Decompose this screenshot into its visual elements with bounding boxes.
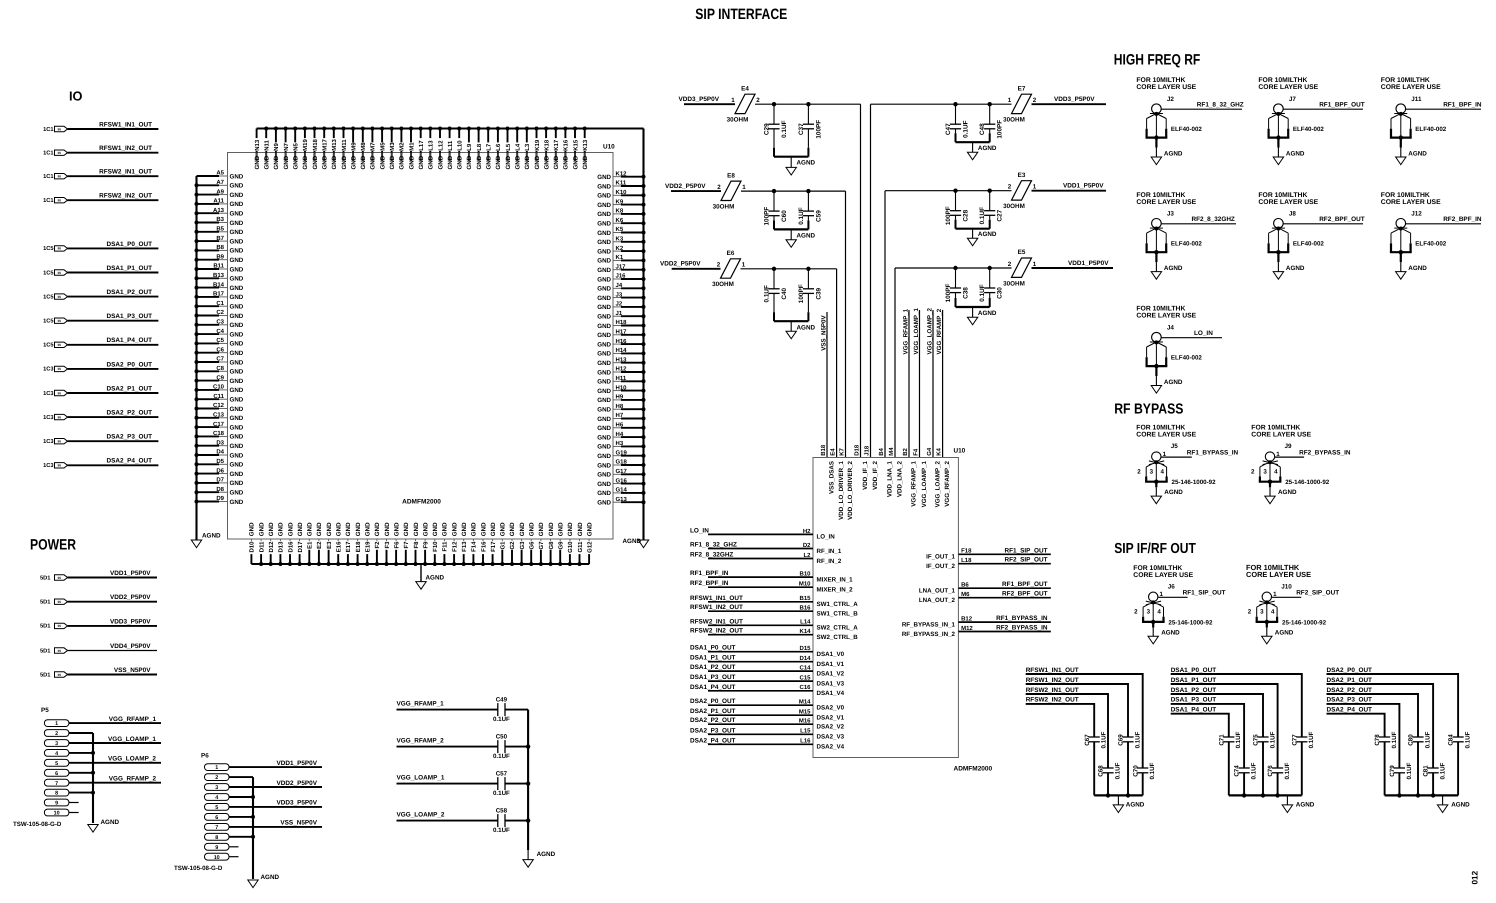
- U10 pin D7 (GND): [197, 482, 220, 484]
- svg-text:6: 6: [215, 815, 218, 821]
- U10 pin M10 (MIXER_IN_2) / wire RF2_BPF_IN: [708, 586, 813, 588]
- svg-text:H14: H14: [616, 347, 628, 354]
- svg-text:SW1_CTRL_B: SW1_CTRL_B: [817, 611, 859, 618]
- svg-text:C15: C15: [799, 675, 811, 682]
- svg-text:F9: F9: [422, 541, 429, 549]
- svg-text:U10: U10: [954, 448, 966, 455]
- svg-text:3: 3: [1150, 468, 1154, 475]
- U10 pin B5 (GND): [197, 231, 220, 233]
- svg-text:GND: GND: [597, 276, 611, 283]
- svg-text:GND: GND: [442, 522, 449, 536]
- svg-text:SIP INTERFACE: SIP INTERFACE: [695, 6, 787, 23]
- U10 pin L17 (GND): [420, 129, 422, 162]
- wire bottom GND bus: [251, 563, 589, 565]
- svg-text:GND: GND: [597, 472, 611, 479]
- svg-text:AGND: AGND: [1164, 150, 1183, 157]
- svg-text:GND: GND: [548, 522, 555, 536]
- svg-text:GND: GND: [326, 522, 333, 536]
- svg-text:F13: F13: [461, 541, 468, 552]
- svg-text:0.1UF: 0.1UF: [1465, 731, 1472, 748]
- svg-text:C17: C17: [213, 421, 225, 428]
- U10 pin L2 (RF_IN_2) / wire RF2_8_32GHZ: [708, 558, 813, 560]
- svg-text:U10: U10: [603, 144, 615, 151]
- svg-text:L2: L2: [803, 552, 811, 559]
- svg-text:30OHM: 30OHM: [727, 117, 749, 124]
- svg-text:L16: L16: [800, 738, 811, 745]
- svg-text:J7: J7: [1289, 96, 1297, 103]
- svg-text:GND: GND: [422, 522, 429, 536]
- U10 pin H8 (GND): [613, 408, 621, 410]
- svg-text:GND: GND: [471, 522, 478, 536]
- svg-text:C81: C81: [1423, 765, 1430, 777]
- svg-text:C80: C80: [1408, 734, 1415, 746]
- U10 pin G8 (GND): [550, 539, 552, 547]
- svg-text:GND: GND: [437, 155, 444, 169]
- svg-text:ELF40-002: ELF40-002: [1171, 241, 1203, 248]
- svg-text:30OHM: 30OHM: [1003, 203, 1025, 210]
- svg-text:30OHM: 30OHM: [1003, 117, 1025, 124]
- svg-text:K13: K13: [582, 139, 589, 151]
- U10 pin N11 (GND): [265, 129, 267, 162]
- svg-text:D17: D17: [297, 541, 304, 553]
- ground AGND (E4 caps): [786, 167, 796, 175]
- U10 pin D5 (GND): [197, 463, 220, 465]
- svg-text:GND: GND: [283, 155, 290, 169]
- svg-text:J1: J1: [616, 310, 623, 317]
- svg-text:F17: F17: [490, 541, 497, 552]
- svg-text:RF_BYPASS_IN_1: RF_BYPASS_IN_1: [902, 621, 956, 628]
- svg-text:GND: GND: [230, 257, 244, 264]
- svg-text:2: 2: [1251, 468, 1255, 475]
- svg-text:D13: D13: [278, 541, 285, 553]
- svg-text:AGND: AGND: [1408, 265, 1427, 272]
- U10 pin B12 (RF_BYPASS_IN_1) / wire RF1_BYPASS_IN: [958, 621, 1050, 623]
- svg-text:4: 4: [1274, 468, 1278, 475]
- svg-text:K12: K12: [616, 170, 628, 177]
- U10 pin H14 (GND): [613, 352, 621, 354]
- U10 pin F7 (GND): [405, 539, 407, 547]
- ground AGND (J8): [1277, 252, 1279, 262]
- U10 pin J2 (GND): [613, 306, 621, 308]
- wire RF2_BYPASS_IN (J9): [1275, 456, 1304, 458]
- svg-text:AGND: AGND: [1164, 489, 1183, 496]
- svg-text:RFSW1_IN1_OUT: RFSW1_IN1_OUT: [1026, 667, 1079, 674]
- svg-text:GND: GND: [597, 434, 611, 441]
- svg-text:VGG_LOAMP_1: VGG_LOAMP_1: [921, 460, 928, 507]
- svg-text:DSA1_P2_OUT: DSA1_P2_OUT: [1171, 687, 1217, 694]
- wire RF1_BPF_OUT (J7): [1283, 108, 1363, 110]
- svg-text:GND: GND: [597, 462, 611, 469]
- svg-text:GND: GND: [597, 388, 611, 395]
- svg-text:GND: GND: [230, 369, 244, 376]
- wire DSA2_P3_OUT (decoupling): [1327, 704, 1400, 737]
- svg-text:GND: GND: [230, 350, 244, 357]
- svg-text:GND: GND: [230, 424, 244, 431]
- svg-text:GND: GND: [597, 416, 611, 423]
- capacitor C39 100PF: [807, 269, 809, 289]
- svg-text:GND: GND: [597, 407, 611, 414]
- svg-text:DSA2_P4_OUT: DSA2_P4_OUT: [690, 737, 736, 744]
- ground AGND (J7): [1277, 138, 1279, 148]
- svg-text:GND: GND: [543, 155, 550, 169]
- svg-text:B9: B9: [216, 253, 224, 260]
- svg-text:K11: K11: [616, 180, 627, 187]
- svg-text:GND: GND: [230, 471, 244, 478]
- svg-text:SW1_CTRL_A: SW1_CTRL_A: [817, 601, 859, 608]
- U10 pin G9 (GND): [559, 539, 561, 547]
- svg-text:L11: L11: [447, 140, 454, 151]
- svg-text:4: 4: [1157, 609, 1161, 616]
- wire E6 cap ground bus: [774, 320, 808, 322]
- svg-text:GND: GND: [597, 258, 611, 265]
- svg-text:K19: K19: [534, 139, 541, 151]
- svg-text:ADMFM2000: ADMFM2000: [402, 499, 441, 506]
- svg-text:1C5: 1C5: [43, 270, 53, 276]
- svg-text:DSA2_P0_OUT: DSA2_P0_OUT: [690, 698, 736, 705]
- svg-text:C49: C49: [496, 696, 508, 703]
- U10 pin J3 (GND): [613, 297, 621, 299]
- svg-text:K18: K18: [543, 139, 550, 151]
- svg-text:GND: GND: [345, 522, 352, 536]
- svg-text:4: 4: [55, 751, 58, 757]
- svg-text:GND: GND: [597, 397, 611, 404]
- svg-text:GND: GND: [350, 155, 357, 169]
- svg-text:AGND: AGND: [978, 231, 997, 238]
- svg-text:1: 1: [742, 262, 746, 269]
- svg-text:G18: G18: [616, 459, 628, 466]
- svg-text:MIXER_IN_2: MIXER_IN_2: [817, 587, 854, 594]
- U10 pin C10 (GND): [197, 389, 220, 391]
- svg-text:25-146-1000-92: 25-146-1000-92: [1168, 619, 1213, 626]
- U10 pin M11 (GND): [343, 129, 345, 162]
- svg-text:CORE LAYER USE: CORE LAYER USE: [1136, 313, 1196, 320]
- svg-text:E6: E6: [727, 250, 735, 257]
- svg-text:RF2_8_32GHZ: RF2_8_32GHZ: [690, 552, 733, 559]
- svg-text:G4: G4: [926, 447, 933, 456]
- svg-text:1: 1: [1033, 261, 1037, 268]
- wire DSA1_P3_OUT (decoupling): [1171, 704, 1244, 737]
- svg-text:GND: GND: [519, 522, 526, 536]
- svg-text:VDD1_P5P0V: VDD1_P5P0V: [1063, 183, 1104, 190]
- svg-text:DSA2_P2_OUT: DSA2_P2_OUT: [690, 717, 736, 724]
- svg-text:ADMFM2000: ADMFM2000: [954, 766, 993, 773]
- U10 pin K11 (GND): [613, 185, 621, 187]
- svg-text:C10: C10: [213, 384, 225, 391]
- ground AGND (J3): [1155, 252, 1157, 262]
- svg-text:ELF40-002: ELF40-002: [1293, 126, 1325, 133]
- svg-text:RFSW2_IN2_OUT: RFSW2_IN2_OUT: [99, 193, 152, 200]
- U10 pin G13 (GND): [613, 501, 621, 503]
- U10 pin G1 (GND): [501, 539, 503, 547]
- svg-text:GND: GND: [230, 359, 244, 366]
- svg-text:C37: C37: [798, 123, 805, 135]
- svg-text:GND: GND: [230, 322, 244, 329]
- U10 pin B17 (GND): [197, 296, 220, 298]
- U10 pin F17 (GND): [492, 539, 494, 547]
- svg-text:0.1UF: 0.1UF: [963, 120, 970, 137]
- U10 pin D11 (GND): [260, 539, 262, 547]
- svg-text:DSA2_P0_OUT: DSA2_P0_OUT: [107, 361, 153, 368]
- ground AGND (decoupling bank): [1117, 795, 1119, 805]
- svg-text:GND: GND: [432, 522, 439, 536]
- U10 pin K10 (GND): [613, 194, 621, 196]
- svg-text:3: 3: [1263, 468, 1267, 475]
- svg-text:P5: P5: [41, 707, 49, 714]
- svg-text:25-146-1000-92: 25-146-1000-92: [1282, 619, 1327, 626]
- svg-text:1C3: 1C3: [43, 367, 53, 373]
- svg-text:ELF40-002: ELF40-002: [1293, 241, 1325, 248]
- svg-text:C29: C29: [763, 123, 770, 135]
- svg-text:CORE LAYER USE: CORE LAYER USE: [1136, 199, 1196, 206]
- svg-text:VDD_LO_DRIVER_2: VDD_LO_DRIVER_2: [847, 460, 854, 519]
- svg-text:RFSW1_IN1_OUT: RFSW1_IN1_OUT: [99, 121, 152, 128]
- svg-text:GND: GND: [597, 286, 611, 293]
- U10 pin N5 (GND): [294, 129, 296, 162]
- svg-text:VDD_LNA_2: VDD_LNA_2: [896, 460, 903, 497]
- svg-text:GND: GND: [316, 522, 323, 536]
- svg-text:M18: M18: [312, 138, 319, 150]
- svg-text:RF1_8_32_GHZ: RF1_8_32_GHZ: [690, 542, 737, 549]
- svg-text:GND: GND: [495, 155, 502, 169]
- svg-text:M3: M3: [389, 142, 396, 151]
- U10 pin A5 (GND): [197, 175, 220, 177]
- U10 pin H16 (GND): [613, 343, 621, 345]
- wire VDD2_P5P0V input: [672, 268, 721, 270]
- capacitor C49 0.1UF: [497, 703, 499, 716]
- svg-text:GND: GND: [597, 360, 611, 367]
- svg-text:100PF: 100PF: [815, 120, 822, 139]
- U10 pin C5 (GND): [197, 342, 220, 344]
- U10 pin F6 (GND): [395, 539, 397, 547]
- svg-text:FOR 10MILTHK: FOR 10MILTHK: [1133, 565, 1182, 572]
- svg-text:0.1UF: 0.1UF: [1424, 731, 1431, 748]
- svg-text:C9: C9: [216, 374, 224, 381]
- svg-text:GND: GND: [597, 425, 611, 432]
- ferrite bead E8 30OHM: [721, 181, 741, 200]
- svg-text:C12: C12: [213, 402, 225, 409]
- svg-text:VGG_LOAMP_1: VGG_LOAMP_1: [913, 308, 920, 355]
- svg-text:2: 2: [1137, 468, 1141, 475]
- svg-text:B10: B10: [799, 571, 811, 578]
- wire DSA1_P3_OUT: [68, 320, 159, 322]
- svg-text:0.1UF: 0.1UF: [1149, 762, 1156, 779]
- svg-text:GND: GND: [230, 462, 244, 469]
- wire RF1_SIP_OUT (J6): [1158, 596, 1188, 598]
- U10 pin M5 (GND): [381, 129, 383, 162]
- svg-text:L15: L15: [800, 728, 811, 735]
- svg-text:E7: E7: [1018, 85, 1026, 92]
- U10 pin K1 (GND): [613, 259, 621, 261]
- U10 pin H3 (GND): [613, 445, 621, 447]
- wire C57 to ground bus: [505, 783, 528, 785]
- wire VGG_LOAMP_1 vertical (to U10 pin F4): [919, 310, 921, 458]
- svg-text:VDD3_P5P0V: VDD3_P5P0V: [277, 800, 318, 807]
- svg-text:GND: GND: [230, 341, 244, 348]
- svg-text:GND: GND: [597, 453, 611, 460]
- svg-text:M2: M2: [399, 142, 406, 151]
- U10 pin F11 (GND): [443, 539, 445, 547]
- svg-text:B2: B2: [902, 447, 909, 455]
- svg-text:1C3: 1C3: [43, 439, 53, 445]
- U10 pin D8 (GND): [197, 491, 220, 493]
- U10 pin H12 (GND): [613, 371, 621, 373]
- U10 pin E3 (GND): [328, 539, 330, 547]
- U10 pin M2 (GND): [400, 129, 402, 162]
- wire VGG bypass ground bus: [527, 710, 529, 850]
- U10 pin F10 (GND): [434, 539, 436, 547]
- svg-text:GND: GND: [254, 155, 261, 169]
- wire DSA1_P1_OUT (decoupling): [1171, 684, 1278, 737]
- ground AGND (J10): [1266, 622, 1268, 628]
- capacitor C29 0.1UF: [773, 104, 775, 124]
- svg-text:J10: J10: [1281, 583, 1292, 590]
- svg-text:1: 1: [731, 97, 735, 104]
- svg-text:GND: GND: [447, 155, 454, 169]
- ground AGND (decoupling bank): [1286, 795, 1288, 805]
- U10 pin B9 (GND): [197, 259, 220, 261]
- svg-text:AGND: AGND: [797, 160, 816, 167]
- svg-text:G6: G6: [529, 541, 536, 550]
- svg-text:5: 5: [215, 805, 218, 811]
- svg-text:J17: J17: [616, 263, 627, 270]
- svg-text:GND: GND: [341, 155, 348, 169]
- svg-text:GND: GND: [230, 211, 244, 218]
- U10 pin F13 (GND): [463, 539, 465, 547]
- U10 pin H4 (GND): [613, 436, 621, 438]
- svg-text:RF2_BPF_IN: RF2_BPF_IN: [690, 580, 729, 587]
- svg-text:GND: GND: [249, 522, 256, 536]
- svg-text:C69: C69: [1118, 734, 1125, 746]
- capacitor C70 0.1UF: [1142, 737, 1144, 768]
- svg-text:GND: GND: [322, 155, 329, 169]
- wire decoupling ground bus: [1229, 794, 1302, 796]
- svg-text:GND: GND: [534, 155, 541, 169]
- svg-text:E18: E18: [355, 541, 362, 552]
- svg-text:B7: B7: [216, 235, 224, 242]
- ground AGND (J9): [1269, 482, 1271, 488]
- U10 pin E17 (GND): [347, 539, 349, 547]
- svg-text:GND: GND: [230, 387, 244, 394]
- svg-text:AGND: AGND: [1278, 489, 1297, 496]
- wire RFSW1_IN2_OUT (decoupling): [1026, 684, 1128, 737]
- svg-text:RF1_BPF_OUT: RF1_BPF_OUT: [1319, 102, 1365, 109]
- wire VGG_RFAMP_1: [397, 709, 498, 711]
- wire DSA1_P1_OUT: [68, 272, 159, 274]
- U10 pin H9 (GND): [613, 399, 621, 401]
- U10 pin C12 (GND): [197, 408, 220, 410]
- svg-text:GND: GND: [360, 155, 367, 169]
- svg-text:GND: GND: [418, 155, 425, 169]
- ground AGND (P5): [88, 825, 98, 833]
- svg-text:VGG_RFAMP_2: VGG_RFAMP_2: [936, 308, 943, 354]
- svg-text:E8: E8: [727, 172, 735, 179]
- U10 pin D12 (GND): [270, 539, 272, 547]
- svg-text:C47: C47: [945, 123, 952, 135]
- svg-text:RF_IN_2: RF_IN_2: [817, 558, 842, 565]
- ground AGND (U10 right): [638, 540, 648, 548]
- svg-text:30OHM: 30OHM: [712, 281, 734, 288]
- wire RF1_BYPASS_IN (J5): [1161, 456, 1192, 458]
- svg-text:L18: L18: [961, 557, 972, 564]
- U10 pin D15 (DSA1_V0) / wire DSA1_P0_OUT: [708, 651, 813, 653]
- U10 pin K5 (GND): [613, 232, 621, 234]
- capacitor C59 0.1UF: [807, 191, 809, 211]
- svg-text:GND: GND: [230, 397, 244, 404]
- svg-text:DSA1_P2_OUT: DSA1_P2_OUT: [690, 664, 736, 671]
- svg-text:GND: GND: [515, 155, 522, 169]
- wire DSA1_P4_OUT: [68, 344, 159, 346]
- svg-text:SW2_CTRL_A: SW2_CTRL_A: [817, 625, 859, 632]
- U10 pin C18 (GND): [197, 435, 220, 437]
- U10 pin A7 (GND): [197, 184, 220, 186]
- U10 pin B15 (SW1_CTRL_A) / wire RFSW1_IN1_OUT: [708, 601, 813, 603]
- svg-text:RFSW2_IN1_OUT: RFSW2_IN1_OUT: [99, 169, 152, 176]
- U10 pin L8 (GND): [478, 129, 480, 162]
- svg-text:GND: GND: [408, 155, 415, 169]
- svg-text:C40: C40: [781, 287, 788, 299]
- wire E5 output: [895, 267, 1012, 269]
- U10 pin M15 (DSA2_V1) / wire DSA2_P1_OUT: [708, 714, 813, 716]
- svg-text:GND: GND: [597, 202, 611, 209]
- svg-text:M7: M7: [370, 142, 377, 151]
- svg-text:2: 2: [1134, 609, 1138, 616]
- U10 pin H10 (GND): [613, 390, 621, 392]
- wire VSS_N5P0V: [68, 674, 158, 676]
- svg-text:RF1_BPF_IN: RF1_BPF_IN: [690, 570, 729, 577]
- ferrite bead E3 30OHM: [1012, 181, 1032, 200]
- svg-text:K3: K3: [616, 236, 624, 243]
- svg-text:DSA2_V4: DSA2_V4: [817, 744, 845, 751]
- svg-text:0.1UF: 0.1UF: [1235, 731, 1242, 748]
- U10 pin G19 (GND): [613, 455, 621, 457]
- U10 pin L11 (GND): [449, 129, 451, 162]
- svg-text:DSA1_P0_OUT: DSA1_P0_OUT: [107, 241, 153, 248]
- svg-text:M4: M4: [888, 447, 895, 456]
- U10 pin G11 (GND): [579, 539, 581, 547]
- svg-text:B4: B4: [878, 447, 885, 455]
- U10 pin K15 (GND): [574, 129, 576, 162]
- svg-text:7: 7: [215, 825, 218, 831]
- wire VGG_RFAMP_1 vertical (to U10 pin B2): [908, 310, 910, 458]
- svg-text:GND: GND: [230, 238, 244, 245]
- wire P5 ground bus (pins 2,4,6,8): [69, 732, 93, 734]
- svg-text:AGND: AGND: [1161, 629, 1180, 636]
- svg-text:H16: H16: [616, 338, 628, 345]
- svg-text:C58: C58: [496, 807, 508, 814]
- svg-text:L9: L9: [466, 143, 473, 151]
- svg-text:K14: K14: [799, 628, 811, 635]
- svg-text:AGND: AGND: [1286, 150, 1305, 157]
- svg-text:2: 2: [717, 184, 721, 191]
- svg-text:L12: L12: [437, 140, 444, 151]
- svg-text:B5: B5: [216, 226, 224, 233]
- svg-text:D15: D15: [799, 645, 811, 652]
- wire decoupling ground bus: [1094, 794, 1143, 796]
- svg-text:GND: GND: [230, 499, 244, 506]
- svg-text:B13: B13: [213, 272, 225, 279]
- svg-text:2: 2: [1008, 261, 1012, 268]
- svg-text:GND: GND: [287, 522, 294, 536]
- U10 pin F8 (GND): [415, 539, 417, 547]
- svg-text:AGND: AGND: [1408, 150, 1427, 157]
- svg-text:K1: K1: [616, 254, 624, 261]
- svg-text:G9: G9: [558, 541, 565, 550]
- svg-text:8: 8: [55, 791, 58, 797]
- svg-text:CORE LAYER USE: CORE LAYER USE: [1251, 432, 1311, 439]
- svg-text:RF1_BYPASS_IN: RF1_BYPASS_IN: [1187, 449, 1239, 456]
- U10 pin D3 (GND): [197, 445, 220, 447]
- capacitor C71 0.1UF: [1223, 736, 1234, 738]
